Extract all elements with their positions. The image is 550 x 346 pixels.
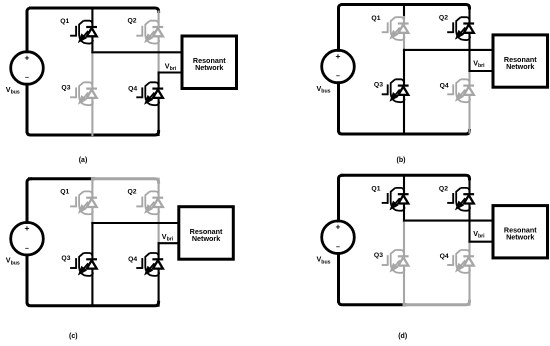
svg-text:Vbri: Vbri <box>162 232 174 243</box>
svg-text:Q2: Q2 <box>128 18 137 25</box>
transistor Q4 with antiparallel diode (a) <box>136 82 163 105</box>
svg-text:Vbus: Vbus <box>6 85 20 96</box>
svg-text:Q4: Q4 <box>440 83 449 90</box>
wire: return output to resonant network (a) <box>159 71 182 73</box>
svg-text:Vbri: Vbri <box>473 58 485 69</box>
voltage source Vbus (b) <box>322 50 355 83</box>
label Q1 (a) <box>60 18 69 25</box>
wire: source to negative rail (b) <box>337 83 340 131</box>
wire: Q4 branch collector (c) <box>158 243 160 259</box>
wire: Q1 branch collector (b) <box>403 5 405 19</box>
label Q4 (d) <box>440 253 449 260</box>
label Q3 (b) <box>374 81 383 88</box>
label Q2 (c) <box>128 188 137 195</box>
wire: Q1 emitter to node Vbri (c) <box>91 207 93 223</box>
wire: node Vbri to lower tap (b) <box>468 50 470 71</box>
svg-text:Network: Network <box>195 63 223 72</box>
wire: positive rail (c) <box>30 177 94 180</box>
wire: bridge output node Vbri to resonant network (c) <box>92 222 178 224</box>
transistor Q2 with antiparallel diode (c) <box>136 191 163 214</box>
wire: negative rail (b) <box>339 131 470 135</box>
caption (a) <box>79 157 88 164</box>
svg-text:Q4: Q4 <box>128 256 137 263</box>
wire: Q2 branch collector (d) <box>468 179 470 195</box>
svg-text:–: – <box>336 73 340 80</box>
svg-text:Vbus: Vbus <box>6 256 20 267</box>
wire: Q3 emitter to negative rail (d) <box>403 266 405 305</box>
svg-text:Network: Network <box>192 234 220 243</box>
wire: negative rail (c) <box>27 302 159 306</box>
wire: Q1 collector gray lead (b) <box>403 17 405 24</box>
wire: top-left corner (d) <box>339 175 343 221</box>
resonant network block (c) <box>179 207 234 260</box>
subfigure (b) <box>317 5 548 165</box>
svg-text:Q2: Q2 <box>439 15 448 22</box>
svg-text:Q1: Q1 <box>371 15 380 22</box>
transistor Q3 with antiparallel diode (b) <box>382 79 409 102</box>
transistor Q2 with antiparallel diode (b) <box>447 17 474 40</box>
wire: return output to resonant network (d) <box>470 241 494 243</box>
wire: Q2 emitter to node Vbri (d) <box>468 203 470 220</box>
svg-text:Q3: Q3 <box>61 84 70 91</box>
svg-text:Q1: Q1 <box>60 189 69 196</box>
wire: Q3 emitter to negative rail (c) <box>91 269 93 306</box>
transistor Q1 with antiparallel diode (a) <box>70 21 97 44</box>
wire: Q4 emitter to negative rail (b) <box>468 95 470 133</box>
wire: negative rail (d) <box>339 301 406 305</box>
wire: node Vbri to lower tap (d) <box>468 221 470 242</box>
transistor Q4 with antiparallel diode (d) <box>447 250 474 273</box>
label Q1 (c) <box>60 189 69 196</box>
label Q1 (d) <box>371 186 380 193</box>
wire: top-left corner (a) <box>27 8 31 52</box>
label Q2 (a) <box>128 18 137 25</box>
wire: Q2 branch collector (a) <box>158 12 160 28</box>
svg-text:–: – <box>25 245 29 252</box>
svg-text:Q4: Q4 <box>440 253 449 260</box>
wire: source to negative rail (a) <box>26 84 29 131</box>
wire: Q2 emitter to node Vbri (b) <box>468 33 470 50</box>
wire: Q3 branch collector (d) <box>403 221 405 257</box>
voltage source Vbus (c) <box>11 222 44 255</box>
svg-text:Vbus: Vbus <box>317 84 331 95</box>
wire: positive rail (d) <box>342 175 470 179</box>
svg-text:+: + <box>25 223 30 233</box>
label Q1 (b) <box>371 15 380 22</box>
wire: Q4 emitter to negative rail (d) <box>468 266 470 305</box>
label Q4 (c) <box>128 256 137 263</box>
svg-text:–: – <box>25 75 29 82</box>
svg-text:Q2: Q2 <box>439 185 448 192</box>
caption (b) <box>397 157 406 164</box>
wire: top-left corner (c) <box>27 179 31 223</box>
wire: bridge output node Vbri to resonant network (d) <box>404 220 493 222</box>
svg-text:(c): (c) <box>69 333 78 340</box>
label Vbus (d) <box>317 255 331 266</box>
voltage source Vbus (d) <box>322 221 355 254</box>
wire: return output to resonant network (b) <box>470 70 494 72</box>
label Vbus (c) <box>6 256 20 267</box>
caption (c) <box>69 333 78 340</box>
transistor Q3 with antiparallel diode (a) <box>70 82 97 105</box>
voltage source Vbus (a) <box>11 52 44 85</box>
wire: bridge output node Vbri to resonant network (b) <box>404 49 493 51</box>
svg-text:Vbus: Vbus <box>317 255 331 266</box>
label Vbus (a) <box>6 85 20 96</box>
wire: Q2 emitter to node Vbri (c) <box>158 207 160 243</box>
resonant network block (b) <box>493 35 548 87</box>
svg-text:Vbri: Vbri <box>473 229 485 240</box>
wire: Q1 emitter to node Vbri (a) <box>91 36 93 52</box>
label Q3 (a) <box>61 84 70 91</box>
svg-text:Network: Network <box>506 233 534 242</box>
wire: negative rail (a) <box>27 132 159 136</box>
transistor Q3 with antiparallel diode (d) <box>382 250 409 273</box>
transistor Q2 with antiparallel diode (d) <box>447 188 474 211</box>
label node Vbri (a) <box>165 61 177 72</box>
svg-text:–: – <box>336 244 340 251</box>
label Q2 (b) <box>439 15 448 22</box>
wire: Q4 emitter to negative rail (a) <box>158 98 160 135</box>
caption (d) <box>398 333 407 340</box>
transistor Q3 with antiparallel diode (c) <box>70 253 97 276</box>
wire: source to negative rail (d) <box>337 254 340 302</box>
wire: Q4 branch collector (b) <box>468 71 470 86</box>
wire: positive rail (a) <box>31 8 159 12</box>
label Q4 (a) <box>128 86 137 93</box>
label node Vbri (c) <box>162 232 174 243</box>
wire: Q1 emitter to node Vbri (d) <box>403 203 405 220</box>
svg-text:Vbri: Vbri <box>165 61 177 72</box>
wire: Q4 branch collector (a) <box>158 73 160 89</box>
svg-text:Q3: Q3 <box>374 252 383 259</box>
svg-text:+: + <box>336 222 341 232</box>
wire: negative rail gray segment to Q4 (d) <box>404 301 470 305</box>
wire: Q1 emitter to node Vbri (b) <box>403 33 405 50</box>
wire: Q3 emitter to negative rail (a) <box>91 98 93 135</box>
label node Vbri (b) <box>473 58 485 69</box>
label node Vbri (d) <box>473 229 485 240</box>
subfigure (a) <box>6 8 237 164</box>
transistor Q2 with antiparallel diode (a) <box>136 21 163 44</box>
wire: Q2 emitter to node Vbri (a) <box>158 36 160 72</box>
svg-text:Q3: Q3 <box>374 81 383 88</box>
svg-text:Q4: Q4 <box>128 86 137 93</box>
wire: Q4 emitter to negative rail (c) <box>158 269 160 306</box>
transistor Q4 with antiparallel diode (c) <box>136 253 163 276</box>
svg-text:Q1: Q1 <box>371 186 380 193</box>
wire: Q2 branch collector (b) <box>468 8 470 24</box>
svg-text:+: + <box>336 51 341 61</box>
label Q2 (d) <box>439 185 448 192</box>
svg-text:Q1: Q1 <box>60 18 69 25</box>
resonant network block (d) <box>493 206 548 258</box>
wire: Q3 branch collector (a) <box>91 52 93 88</box>
transistor Q1 with antiparallel diode (d) <box>382 188 409 211</box>
wire: Q3 emitter to negative rail (b) <box>403 95 405 134</box>
wire: Q3 branch collector (b) <box>403 50 405 86</box>
transistor Q4 with antiparallel diode (b) <box>447 79 474 102</box>
resonant network block (a) <box>182 36 237 89</box>
wire: Q4 branch collector (d) <box>468 242 470 257</box>
wire: Q1 branch collector (a) <box>91 8 93 27</box>
wire: return output to resonant network (c) <box>159 242 179 244</box>
svg-text:Q2: Q2 <box>128 188 137 195</box>
label Q4 (b) <box>440 83 449 90</box>
wire: top-left corner (b) <box>339 5 343 51</box>
svg-text:Network: Network <box>506 62 534 71</box>
svg-text:(a): (a) <box>79 157 88 164</box>
label Q3 (d) <box>374 252 383 259</box>
svg-text:+: + <box>25 53 30 63</box>
wire: Q1 branch collector (c) <box>91 179 93 198</box>
wire: Q1 branch collector (d) <box>403 175 405 194</box>
wire: positive rail (b) <box>342 5 470 9</box>
wire: bridge output node Vbri to resonant network (a) <box>92 51 182 53</box>
subfigure (c) <box>6 179 234 340</box>
wire: source to negative rail (c) <box>26 255 29 302</box>
svg-text:(b): (b) <box>397 157 406 164</box>
svg-text:(d): (d) <box>398 333 407 340</box>
wire: positive rail gray segment to Q2 (c) <box>92 179 158 183</box>
label Vbus (b) <box>317 84 331 95</box>
label Q3 (c) <box>61 255 70 262</box>
subfigure (d) <box>317 175 548 340</box>
transistor Q1 with antiparallel diode (b) <box>382 17 409 40</box>
svg-text:Q3: Q3 <box>61 255 70 262</box>
transistor Q1 with antiparallel diode (c) <box>70 191 97 214</box>
wire: Q2 branch collector (c) <box>158 179 160 198</box>
wire: Q3 branch collector (c) <box>91 223 93 259</box>
